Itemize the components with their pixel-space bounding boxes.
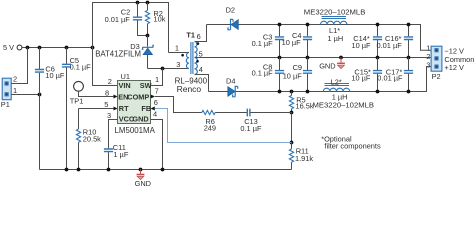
wire VCC pin to C11 xyxy=(109,120,118,149)
svg-text:4: 4 xyxy=(199,65,203,74)
capacitor C6 xyxy=(35,48,65,170)
wire divider to FB node xyxy=(291,113,293,143)
svg-text:RT: RT xyxy=(119,104,129,113)
svg-text:0.1 µF: 0.1 µF xyxy=(70,62,92,71)
resistor R2 xyxy=(145,3,165,36)
node +12 rail C8 xyxy=(278,90,282,94)
capacitor C14 xyxy=(352,25,383,58)
svg-text:D4: D4 xyxy=(226,77,235,86)
node R2 top junction xyxy=(146,1,150,5)
capacitor C8 xyxy=(252,58,285,92)
svg-text:GND: GND xyxy=(132,115,148,124)
pin RT input arrow xyxy=(114,107,118,111)
node gnd C11 xyxy=(107,168,111,172)
svg-text:2: 2 xyxy=(108,77,112,86)
wire TP1 to EN pin xyxy=(79,91,114,96)
svg-text:T1: T1 xyxy=(186,31,195,40)
svg-text:10 µF: 10 µF xyxy=(45,71,65,80)
ground symbol GND primary xyxy=(135,170,151,189)
svg-text:ME3220–102MLB: ME3220–102MLB xyxy=(313,100,375,109)
inductor L2 ferrite bead xyxy=(323,77,349,101)
T1 polarity dot secondary upper xyxy=(197,42,200,45)
svg-text:U1: U1 xyxy=(121,72,130,81)
node mid rail GND xyxy=(339,56,343,60)
wire P1 pin1 to ground drop xyxy=(11,94,39,96)
svg-text:3: 3 xyxy=(176,60,180,69)
diode D4 xyxy=(226,77,238,97)
connector P2 xyxy=(426,43,442,81)
wire SW node to transformer pin 3 xyxy=(148,68,190,70)
svg-text:1 µH: 1 µH xyxy=(328,34,344,43)
capacitor C2 xyxy=(105,3,148,36)
svg-text:5 V: 5 V xyxy=(3,43,14,52)
capacitor C17 xyxy=(377,58,413,92)
wire P1 pin2 to 5V rail xyxy=(11,48,27,84)
svg-text:1 µF: 1 µF xyxy=(113,150,128,159)
pin COMP output arrow xyxy=(151,95,155,99)
node +12 rail C9 xyxy=(306,90,310,94)
node clamp bottom junction xyxy=(146,34,150,38)
svg-text:P2: P2 xyxy=(432,72,441,81)
svg-text:GND: GND xyxy=(319,61,335,70)
svg-text:1.91k: 1.91k xyxy=(295,154,313,163)
capacitor C11 xyxy=(104,120,129,170)
svg-text:249: 249 xyxy=(204,124,216,133)
node 5V-C5 junction xyxy=(65,46,69,50)
capacitor C15 xyxy=(351,58,382,92)
svg-text:2: 2 xyxy=(13,75,17,84)
svg-text:8: 8 xyxy=(105,88,109,97)
svg-text:0.01 µF: 0.01 µF xyxy=(105,15,131,24)
svg-text:6: 6 xyxy=(197,32,201,41)
node gnd C5 xyxy=(65,168,69,172)
svg-text:1: 1 xyxy=(13,86,17,95)
node +12 rail C15 xyxy=(376,90,380,94)
resistor R10 xyxy=(76,109,101,170)
wire R10 to RT pin xyxy=(79,108,114,110)
svg-text:10 µF: 10 µF xyxy=(351,73,371,82)
transformer T1 secondary winding xyxy=(195,42,198,75)
node FB tap xyxy=(290,141,294,145)
svg-text:FB: FB xyxy=(141,104,151,113)
node C2 top junction xyxy=(136,1,140,5)
node top rail C16 xyxy=(407,23,411,27)
svg-text:5: 5 xyxy=(199,50,203,59)
svg-text:1: 1 xyxy=(426,43,430,52)
node +12 rail R5 xyxy=(290,90,294,94)
svg-text:1: 1 xyxy=(175,44,179,53)
wire VIN drop xyxy=(93,48,118,86)
node gnd symbol xyxy=(139,168,143,172)
T1 polarity dot primary xyxy=(181,54,184,57)
svg-text:P1: P1 xyxy=(1,100,10,109)
node mid rail C16 xyxy=(407,56,411,60)
node 5V-P1 junction xyxy=(26,46,30,50)
svg-text:7: 7 xyxy=(155,87,159,96)
svg-text:ME3220–102MLB: ME3220–102MLB xyxy=(304,8,366,17)
wire T1 pin 5 to mid rail xyxy=(195,57,432,59)
wire U1 GND pin to ground rail xyxy=(151,120,163,170)
capacitor C9 xyxy=(283,58,312,92)
svg-text:D2: D2 xyxy=(226,5,235,14)
wire +12V rail xyxy=(209,67,432,92)
node top rail C4 xyxy=(306,23,310,27)
pin EN input arrow xyxy=(114,95,118,99)
wire 5V rail xyxy=(22,47,93,49)
terminal 5V input xyxy=(3,43,22,52)
capacitor C5 xyxy=(62,48,91,170)
svg-text:1: 1 xyxy=(155,75,159,84)
capacitor C13 xyxy=(240,109,291,133)
diode D2 xyxy=(226,5,239,29)
svg-text:0.1 µF: 0.1 µF xyxy=(240,124,262,133)
svg-text:L2*: L2* xyxy=(331,77,342,86)
svg-text:BAT41ZFILM: BAT41ZFILM xyxy=(95,49,141,58)
T1 labels xyxy=(175,31,208,94)
test point TP1 xyxy=(70,81,84,105)
transformer T1 core xyxy=(191,42,193,74)
svg-text:VIN: VIN xyxy=(119,81,131,90)
svg-text:COMP: COMP xyxy=(127,93,149,102)
wire T1 pin 1 xyxy=(169,52,190,54)
node 5V-C6 junction xyxy=(38,46,42,50)
svg-text:filter components: filter components xyxy=(324,141,381,150)
svg-text:6: 6 xyxy=(154,98,158,107)
IC U1 LM5001MA xyxy=(104,72,159,135)
node mid rail C4 xyxy=(306,56,310,60)
wire top rail -12V xyxy=(207,25,432,51)
node gnd R10 xyxy=(77,168,81,172)
transformer T1 primary winding xyxy=(186,53,189,69)
diode D3 BAT41ZFILM xyxy=(95,36,154,69)
node P1-C6 ground junction xyxy=(38,93,42,97)
svg-text:10k: 10k xyxy=(154,14,166,23)
node gnd U1 xyxy=(161,168,165,172)
svg-text:20.5k: 20.5k xyxy=(83,135,101,144)
svg-text:TP1: TP1 xyxy=(70,97,84,106)
node +12 rail C17 xyxy=(407,90,411,94)
label optional note xyxy=(321,135,381,151)
inductor L1 ferrite bead xyxy=(321,17,347,44)
svg-text:+12 V: +12 V xyxy=(444,63,464,72)
svg-text:SW: SW xyxy=(140,81,152,90)
svg-text:10 µF: 10 µF xyxy=(283,72,303,81)
svg-text:GND: GND xyxy=(135,179,151,186)
svg-text:10 µF: 10 µF xyxy=(282,38,302,47)
ground symbol GND secondary xyxy=(319,58,345,71)
svg-text:3: 3 xyxy=(426,60,430,69)
wire SW pin to node xyxy=(151,69,163,86)
svg-text:0.1 µF: 0.1 µF xyxy=(252,39,274,48)
svg-text:0.01 µF: 0.01 µF xyxy=(377,73,403,82)
node mid rail C3 xyxy=(278,56,282,60)
wire COMP to R6 xyxy=(155,97,202,113)
svg-text:0.1 µF: 0.1 µF xyxy=(252,68,274,77)
connector P1 xyxy=(1,75,17,109)
svg-text:5: 5 xyxy=(104,100,108,109)
pin FB input arrow xyxy=(151,107,155,111)
node top rail C3 xyxy=(278,23,282,27)
node top rail C14 xyxy=(376,23,380,27)
svg-text:16.5k: 16.5k xyxy=(296,101,314,110)
wire FB blue xyxy=(155,109,292,143)
resistor R11 xyxy=(289,143,313,170)
capacitor C3 xyxy=(252,25,285,58)
wire T1 pin 4 xyxy=(195,75,209,92)
svg-text:4: 4 xyxy=(153,110,157,119)
resistor R5 xyxy=(289,92,313,113)
svg-text:Renco: Renco xyxy=(177,84,202,94)
resistor R6 xyxy=(202,110,247,132)
capacitor C4 xyxy=(282,25,313,58)
node 5V-clamp junction xyxy=(91,46,95,50)
node divider top xyxy=(290,111,294,115)
wire ground rail xyxy=(40,169,292,171)
wire clamp loop left and top xyxy=(93,3,169,53)
svg-text:3: 3 xyxy=(107,111,111,120)
svg-text:0.01 µF: 0.01 µF xyxy=(377,41,403,50)
node mid rail C14 xyxy=(376,56,380,60)
T1 polarity dot secondary lower xyxy=(196,60,199,63)
wire T1 pin 6 xyxy=(195,25,207,42)
node SW junction xyxy=(161,67,165,71)
capacitor C16 xyxy=(377,25,414,58)
svg-text:10 µF: 10 µF xyxy=(352,41,372,50)
svg-text:LM5001MA: LM5001MA xyxy=(115,126,156,135)
